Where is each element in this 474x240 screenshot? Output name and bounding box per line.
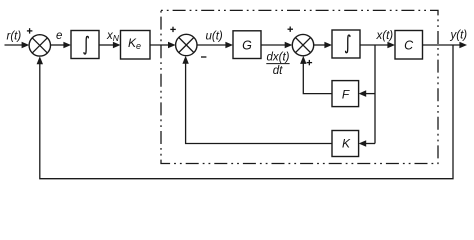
svg-text:C: C bbox=[404, 38, 414, 52]
wire C to y(t) output bbox=[423, 42, 468, 49]
wire S2 to G bbox=[197, 42, 233, 49]
plus sign at S1 top input bbox=[27, 28, 33, 33]
plus sign at S3 left input bbox=[288, 27, 294, 32]
block G bbox=[233, 31, 261, 59]
label x(t) bbox=[376, 30, 394, 42]
wire y(t) feedback to S1 bbox=[37, 45, 453, 179]
svg-text:e: e bbox=[56, 30, 62, 42]
block Ke bbox=[121, 31, 151, 60]
wire Ke to summing junction S2 bbox=[150, 42, 176, 49]
wire tap to F input bbox=[359, 90, 375, 97]
wire K output feedback to S2 bbox=[182, 56, 332, 144]
block integrator U2 bbox=[332, 30, 360, 58]
block F bbox=[332, 81, 359, 107]
svg-text:F: F bbox=[342, 87, 350, 101]
summing junction S2 bbox=[176, 34, 197, 55]
summing junction S3 bbox=[292, 34, 313, 55]
dashed subsystem boundary box bbox=[161, 10, 438, 163]
wire integrator 1 to Ke bbox=[99, 42, 121, 49]
label fraction dx(t)/dt bbox=[266, 51, 289, 77]
plus sign at S2 left input bbox=[170, 27, 176, 32]
svg-text:G: G bbox=[242, 38, 252, 52]
svg-text:x(t): x(t) bbox=[376, 30, 394, 42]
wire F output feedback to S3 bbox=[300, 56, 332, 94]
block C bbox=[395, 31, 423, 60]
wire S3 to integrator 2 bbox=[314, 42, 332, 49]
block integrator U1 bbox=[71, 31, 99, 59]
label r(t) bbox=[7, 31, 22, 43]
block K bbox=[332, 131, 359, 157]
svg-text:Ke: Ke bbox=[128, 36, 141, 51]
svg-text:dt: dt bbox=[273, 65, 283, 77]
label u(t) bbox=[206, 30, 223, 42]
plus sign at S3 bottom input bbox=[307, 60, 313, 65]
svg-text:u(t): u(t) bbox=[206, 30, 223, 42]
wire r(t) input bbox=[5, 42, 30, 49]
label e bbox=[56, 30, 62, 42]
svg-text:r(t): r(t) bbox=[7, 31, 22, 43]
wire integrator 2 to C with node tap bbox=[360, 42, 395, 49]
label y(t) bbox=[450, 30, 468, 42]
wire G to summing junction S3 bbox=[261, 42, 292, 49]
summing junction S1 bbox=[29, 35, 50, 56]
wire state tap x(t) down to F and K bbox=[374, 45, 376, 144]
wire S1 to integrator 1 bbox=[51, 42, 72, 49]
svg-text:y(t): y(t) bbox=[450, 30, 468, 42]
minus sign at S2 bottom input bbox=[201, 56, 206, 58]
svg-text:dx(t): dx(t) bbox=[267, 51, 290, 63]
svg-text:xN: xN bbox=[106, 30, 120, 43]
wire tap to K input bbox=[359, 140, 375, 147]
label xN bbox=[106, 30, 120, 43]
svg-text:K: K bbox=[342, 137, 351, 151]
